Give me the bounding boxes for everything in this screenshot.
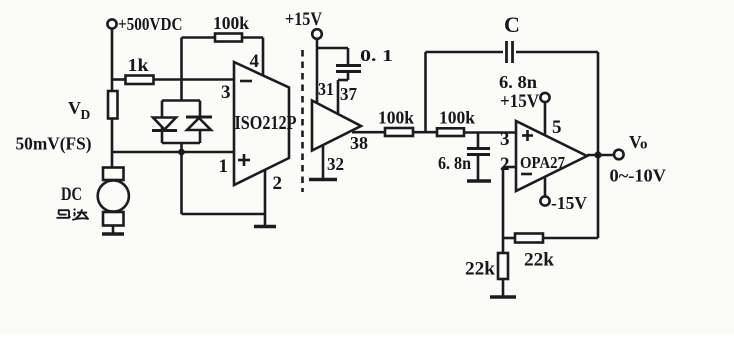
wire pin5 — [544, 102, 547, 135]
svg-text:37: 37 — [340, 84, 357, 104]
resistor R 100k input2 — [437, 108, 475, 137]
wire feedback top left — [426, 51, 504, 54]
diode D1 — [152, 118, 177, 131]
resistor R 1k — [126, 55, 154, 84]
resistor R 22k ground — [465, 238, 508, 297]
svg-text:38: 38 — [350, 133, 368, 153]
svg-text:C: C — [504, 12, 520, 37]
wire pin2 opa — [503, 167, 516, 238]
diode clamp pair frame — [162, 101, 200, 153]
svg-text:22k: 22k — [465, 259, 495, 280]
wire feedback vertical — [180, 38, 183, 101]
wire feedback up — [424, 52, 427, 132]
svg-text:3: 3 — [221, 82, 231, 103]
terminal +15V left — [285, 9, 322, 39]
wire — [413, 131, 437, 134]
wire — [182, 36, 216, 39]
svg-text:1: 1 — [219, 156, 229, 177]
wire — [543, 237, 598, 240]
svg-text:100k: 100k — [213, 13, 249, 33]
svg-text:+15V: +15V — [285, 9, 322, 30]
svg-text:4: 4 — [250, 51, 260, 72]
svg-text:DC: DC — [61, 184, 82, 205]
wire pin38 — [352, 131, 385, 134]
wire feedback top right — [516, 51, 598, 54]
svg-text:0. 1: 0. 1 — [360, 46, 393, 65]
svg-text:D: D — [81, 107, 91, 122]
wire pin4 — [262, 38, 265, 77]
svg-text:50mV(FS): 50mV(FS) — [16, 134, 92, 154]
svg-text:100k: 100k — [378, 108, 414, 128]
svg-text:2: 2 — [500, 154, 510, 175]
svg-text:+500VDC: +500VDC — [118, 14, 183, 34]
isolation barrier dashed line — [301, 50, 304, 192]
wire pin2 — [264, 170, 267, 227]
svg-text:6. 8n: 6. 8n — [499, 72, 537, 92]
svg-text:2: 2 — [273, 173, 283, 194]
wire pin31 — [316, 39, 319, 103]
svg-text:6. 8n: 6. 8n — [438, 153, 471, 173]
wire ground loop — [182, 152, 266, 214]
svg-text:0~-10V: 0~-10V — [610, 166, 667, 186]
capacitor 0.1 — [336, 46, 393, 72]
terminal Vo — [614, 132, 648, 159]
node junction pin1 — [178, 149, 185, 156]
ground motor — [102, 232, 124, 236]
resistor R 100k input1 — [378, 108, 414, 137]
op-amp U1 output stage — [312, 79, 368, 174]
wire to opamp — [464, 131, 516, 134]
diode D2 — [186, 117, 212, 130]
svg-text:31: 31 — [318, 79, 334, 99]
ground cap 6.8n — [467, 179, 491, 183]
wire — [242, 36, 263, 39]
label 马达 (motor) — [57, 209, 89, 220]
terminal +500VDC — [107, 14, 182, 34]
terminal -15V — [540, 193, 587, 213]
op-amp U2 OPA27 — [500, 117, 587, 191]
wire feedback right vertical — [597, 52, 600, 238]
op-amp U1 ISO212P — [219, 51, 297, 194]
svg-text:V: V — [68, 98, 81, 118]
svg-text:3: 3 — [500, 129, 510, 150]
resistor R 22k feedback — [515, 234, 554, 271]
svg-text:+15V: +15V — [500, 91, 539, 112]
svg-text:22k: 22k — [524, 250, 554, 271]
node output junction — [594, 151, 601, 158]
svg-text:5: 5 — [552, 117, 562, 138]
wire pin3 — [154, 78, 235, 81]
svg-text:1k: 1k — [128, 55, 149, 75]
wire — [111, 119, 114, 153]
wire output — [587, 154, 614, 157]
wire — [112, 78, 126, 81]
svg-text:32: 32 — [327, 154, 344, 174]
wire — [503, 237, 515, 240]
resistor VD sense — [68, 91, 118, 122]
wire pin1 — [111, 151, 234, 154]
wire pin37 — [338, 72, 348, 115]
ground 22k — [490, 295, 516, 299]
terminal +15V right — [500, 91, 550, 112]
svg-text:ISO212P: ISO212P — [235, 112, 297, 134]
svg-text:o: o — [640, 137, 648, 153]
svg-text:100k: 100k — [439, 108, 475, 128]
wire pin -15V — [544, 177, 547, 197]
wire — [317, 47, 348, 50]
ground pin2 — [254, 225, 276, 229]
svg-text:-15V: -15V — [551, 193, 587, 213]
capacitor C feedback — [499, 12, 537, 92]
wire — [111, 29, 114, 91]
motor DC — [61, 152, 129, 234]
wire pin32 — [322, 145, 325, 180]
svg-text:OPA27: OPA27 — [520, 153, 565, 172]
capacitor 6.8n shunt — [438, 133, 490, 182]
ground pin32 — [309, 178, 337, 182]
resistor R 100k feedback — [213, 13, 249, 42]
